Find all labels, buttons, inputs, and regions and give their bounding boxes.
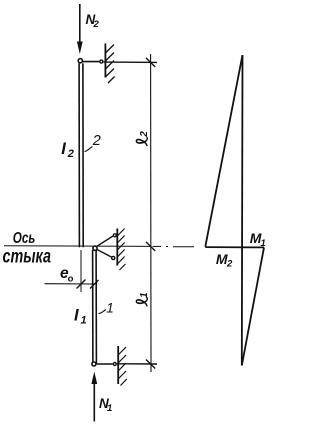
bottom support wall [117,346,119,384]
strut to lower support circle [97,249,112,257]
svg-text:I: I [74,307,79,325]
eccentricity extension line [80,250,82,292]
column segment 2 (double line) [79,63,83,247]
upper support circle [113,234,116,237]
force arrow N1 [91,372,97,422]
svg-text:2: 2 [139,131,150,138]
moment diagram axis [241,55,244,366]
label M2 [216,251,233,270]
label N2 [86,12,100,30]
hinge circle at top support [100,60,103,63]
tick at e0 left [77,280,86,289]
svg-text:1: 1 [106,300,114,315]
svg-text:1: 1 [107,403,112,414]
lower support circle [112,256,115,259]
vertical dimension line [150,54,152,372]
svg-text:I: I [61,140,66,158]
centre line dashes toward moment diagram [153,245,195,247]
label I1 [74,307,87,327]
strut to upper support circle [97,236,113,246]
label I2 [61,140,74,160]
label e0 [60,265,74,285]
middle support hatching [117,229,125,271]
leader for label 2 [85,147,93,152]
svg-text:2: 2 [93,19,100,30]
moment diagram lower slope (M1 side) [242,247,264,365]
middle support wall [116,229,118,266]
column segment 1 (double line) [93,250,97,364]
leader for label 1 [99,310,106,314]
svg-text:2: 2 [226,259,233,270]
bottom extension line to dimension [117,363,157,365]
main hinge at joint [93,246,97,250]
tick at bottom crossing [146,360,155,369]
svg-text:2: 2 [92,133,101,149]
force arrow N2 [77,4,83,54]
bottom support hatching [118,347,127,386]
svg-text:Ось: Ось [13,230,36,247]
tick at e0 right [90,280,99,289]
svg-text:1: 1 [139,292,150,298]
tick at middle crossing [146,242,155,251]
dimension label l1 (rotated) [136,292,150,306]
joint axis centre line (Os' styka) [4,245,151,248]
label N1 [99,396,112,414]
top support hatching [105,45,114,84]
link strut top [83,61,100,63]
top extension line to dimension [104,61,158,63]
dimension label l2 (rotated) [136,131,150,146]
hinge circle at column bottom [92,362,96,366]
moment diagram base line at joint [205,246,264,248]
svg-text:стыка: стыка [3,247,52,268]
svg-text:2: 2 [67,148,74,160]
eccentricity dimension line e0 [45,283,95,285]
svg-text:o: o [68,274,74,285]
top support wall [104,44,106,78]
svg-text:1: 1 [81,315,87,327]
hinge circle at bottom support [113,363,116,366]
hinge circle at top of column [78,59,82,63]
svg-text:1: 1 [261,238,266,249]
bottom link strut [97,363,113,365]
tick at top crossing [146,58,155,67]
label M1 [250,230,266,249]
moment diagram upper slope (M2 side) [205,55,242,247]
